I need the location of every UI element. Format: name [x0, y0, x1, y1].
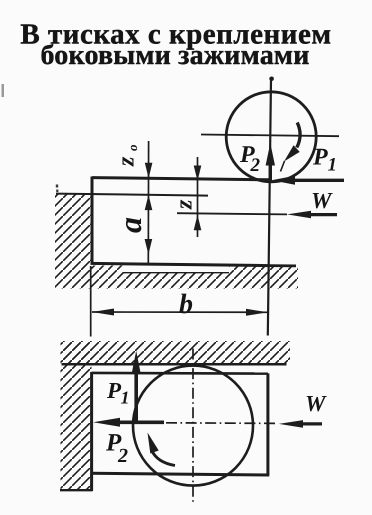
force P1 arrow (left)	[294, 179, 344, 182]
top jaw bottom edge	[62, 363, 287, 366]
workpiece left edge	[91, 177, 94, 265]
top jaw hatch band	[62, 341, 290, 364]
svg-text:o: o	[125, 144, 140, 151]
svg-text:a: a	[112, 217, 148, 233]
svg-text:2: 2	[117, 445, 128, 467]
svg-text:b: b	[179, 289, 193, 320]
label z	[172, 199, 198, 210]
force P1 arrow (up, bottom fig)	[134, 372, 138, 423]
svg-text:z: z	[172, 199, 198, 210]
force P2 arrow (up)	[269, 162, 272, 182]
svg-text:1: 1	[121, 388, 130, 408]
workpiece bottom edge (bottom fig)	[92, 473, 270, 475]
cutter centerline / workpiece right edge (vertical)	[268, 79, 271, 336]
base top edge extension	[268, 264, 296, 267]
milling cutter circle	[226, 92, 316, 182]
cutter horizontal dash-dot centerline	[166, 422, 279, 425]
clamp force W line	[177, 213, 287, 214]
force P2 arrow (left, bottom fig)	[118, 420, 164, 424]
shim plate (white strip under workpiece)	[123, 265, 230, 273]
page-edge stray mark	[2, 84, 5, 97]
svg-text:2: 2	[250, 155, 261, 176]
workpiece top edge (bottom fig)	[92, 372, 269, 375]
vice base hatch (top figure)	[55, 266, 298, 289]
svg-text:1: 1	[328, 155, 338, 176]
cutter rotation arrow	[297, 123, 300, 148]
dimension b extension line (left)	[90, 266, 92, 337]
left jaw hatch band	[61, 341, 92, 490]
workpiece bottom edge	[91, 263, 269, 265]
dimension z0 / a line	[147, 141, 149, 264]
workpiece right edge (bottom fig)	[266, 373, 269, 475]
dimension b line	[92, 311, 268, 313]
label a	[112, 217, 148, 233]
stray ink dots	[56, 185, 58, 188]
vice left jaw hatch (top figure)	[55, 195, 92, 267]
cutter horizontal centerline	[201, 135, 339, 137]
svg-text:W: W	[305, 391, 327, 416]
label z0	[114, 144, 141, 167]
force W arrow (left)	[310, 213, 337, 216]
svg-text:W: W	[311, 188, 333, 213]
dimension z line	[197, 157, 199, 237]
workpiece top edge	[92, 178, 270, 180]
workpiece left edge (bottom fig)	[90, 372, 93, 491]
left jaw bottom cap	[60, 489, 93, 491]
svg-text:z: z	[114, 156, 140, 167]
cutter circle (bottom fig)	[133, 366, 253, 486]
svg-text:P: P	[312, 145, 328, 171]
cutter vertical dash-dot centerline	[192, 349, 194, 503]
cutter rotation arrow (bottom fig)	[152, 450, 176, 466]
jaw top / cut level line	[56, 194, 208, 196]
force W arrow (left, bottom fig)	[301, 422, 322, 425]
svg-text:боковыми зажимами: боковыми зажимами	[40, 40, 309, 71]
